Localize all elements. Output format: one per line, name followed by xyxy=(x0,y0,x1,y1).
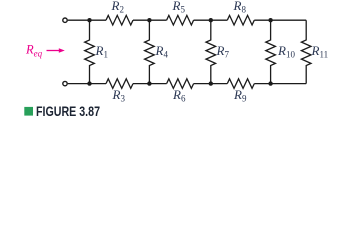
junction node bottom of R7 xyxy=(209,81,213,85)
svg-text:R6: R6 xyxy=(172,87,186,104)
svg-text:R9: R9 xyxy=(233,87,247,104)
resistor R4 xyxy=(145,20,169,83)
junction node top of R10 xyxy=(268,18,272,22)
junction node bottom of R1 xyxy=(87,81,91,85)
resistor R3 xyxy=(106,79,133,104)
resistor R6 xyxy=(167,79,194,104)
svg-text:R7: R7 xyxy=(216,43,230,60)
resistor R10 xyxy=(266,20,296,83)
wire bottom rail: R9 to bottom-right corner xyxy=(254,83,306,85)
terminal top-left xyxy=(63,18,67,22)
wire bottom rail: R3 to R6 xyxy=(133,83,167,85)
svg-text:R5: R5 xyxy=(172,0,186,15)
svg-text:R3: R3 xyxy=(112,87,126,104)
arrow Req xyxy=(47,48,65,52)
figure caption marker xyxy=(24,107,33,116)
svg-text:R2: R2 xyxy=(111,0,124,15)
resistor R11 xyxy=(301,20,328,83)
svg-text:R11: R11 xyxy=(311,43,329,60)
terminal bottom-left xyxy=(63,81,67,85)
junction node bottom of R4 xyxy=(147,81,151,85)
resistor R9 xyxy=(227,79,254,104)
wire top rail: R2 to R5 xyxy=(133,19,167,21)
resistor R7 xyxy=(206,20,229,83)
wire top rail: R5 to R8 xyxy=(194,19,228,21)
svg-text:R10: R10 xyxy=(277,43,295,60)
wire top rail: R8 to top-right corner xyxy=(254,19,306,21)
junction node top of R7 xyxy=(209,18,213,22)
junction node bottom of R10 xyxy=(268,81,272,85)
svg-text:Req: Req xyxy=(25,43,43,59)
svg-text:R8: R8 xyxy=(233,0,247,15)
resistor R2 xyxy=(106,0,133,25)
junction node top of R4 xyxy=(147,18,151,22)
wire top rail: terminal to R2 xyxy=(68,19,106,21)
resistor R8 xyxy=(227,0,254,25)
wire bottom rail: R6 to R9 xyxy=(194,83,228,85)
wire bottom rail: terminal to R3 xyxy=(68,83,106,85)
svg-text:R4: R4 xyxy=(155,43,169,60)
resistor R1 xyxy=(85,20,108,83)
svg-text:R1: R1 xyxy=(95,43,108,60)
junction node top of R1 xyxy=(87,18,91,22)
svg-text:FIGURE 3.87: FIGURE 3.87 xyxy=(36,103,100,119)
resistor R5 xyxy=(167,0,194,25)
